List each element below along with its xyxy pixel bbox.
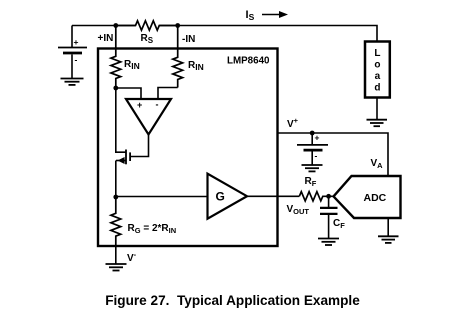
transistor Q1 (MOSFET) <box>116 150 130 165</box>
svg-text:+: + <box>315 133 320 143</box>
svg-text:LMP8640: LMP8640 <box>227 56 270 67</box>
LMP8640 box <box>98 49 278 247</box>
wire Load to ground <box>376 98 378 120</box>
wire top rail from battery to Load <box>72 25 136 27</box>
svg-text:+: + <box>74 37 79 47</box>
node +IN junction dot <box>113 23 118 28</box>
node VOUT junction dot <box>326 194 331 199</box>
wire +IN node down to transistor drain <box>116 88 126 152</box>
resistor RS <box>116 21 178 45</box>
wire top rail right segment <box>159 26 377 43</box>
resistor RIN (left) <box>111 26 140 89</box>
resistor RIN (right) <box>173 26 204 88</box>
ground (battery B2) <box>302 165 323 171</box>
svg-text:o: o <box>374 60 380 71</box>
ground (V-) <box>106 264 127 271</box>
svg-text:+IN: +IN <box>98 33 114 44</box>
svg-text:-: - <box>75 55 78 65</box>
svg-text:Figure 27. Typical Applicatio: Figure 27. Typical Application Example <box>105 293 360 308</box>
svg-text:-IN: -IN <box>182 34 195 45</box>
wire to op-amp - input <box>158 88 178 100</box>
ground (CF) <box>318 239 339 246</box>
svg-text:RIN: RIN <box>188 60 204 72</box>
ADC block <box>334 176 401 218</box>
capacitor CF <box>320 196 345 238</box>
amplifier G <box>208 174 248 219</box>
wire V+ rail from box to ADC top (VA) <box>278 133 389 176</box>
ground (ADC) <box>378 236 399 243</box>
wire ADC to ground <box>387 218 389 236</box>
node V+ junction dot <box>310 131 315 136</box>
wire box bottom to V- ground <box>115 246 117 264</box>
svg-text:G: G <box>216 190 225 204</box>
battery B2 (V+ supply) <box>297 133 328 165</box>
node B junction dot <box>113 195 118 200</box>
svg-text:a: a <box>375 71 381 82</box>
svg-text:RIN: RIN <box>124 59 140 71</box>
current label IS <box>246 9 289 22</box>
resistor RG <box>111 197 176 246</box>
node A junction dot (below left RIN) <box>113 86 118 91</box>
node -IN junction dot <box>175 23 180 28</box>
svg-text:-: - <box>315 151 318 161</box>
svg-text:+: + <box>137 100 142 110</box>
wire op-amp output to gate <box>131 135 149 157</box>
svg-text:ADC: ADC <box>364 192 387 204</box>
ground (battery B1) <box>61 79 84 85</box>
svg-text:-: - <box>156 100 159 110</box>
wire transistor source down to node B <box>115 161 117 198</box>
wire node B to G amplifier input <box>116 196 208 198</box>
op-amp U1 body <box>126 99 171 135</box>
wire G output / VOUT <box>247 195 299 197</box>
resistor RF <box>299 176 333 201</box>
svg-text:d: d <box>374 83 380 94</box>
battery B1 (supply) <box>58 26 87 79</box>
wire to op-amp + input <box>116 88 141 99</box>
ground (Load) <box>367 120 388 127</box>
svg-text:L: L <box>374 48 380 59</box>
Load block <box>365 42 390 98</box>
